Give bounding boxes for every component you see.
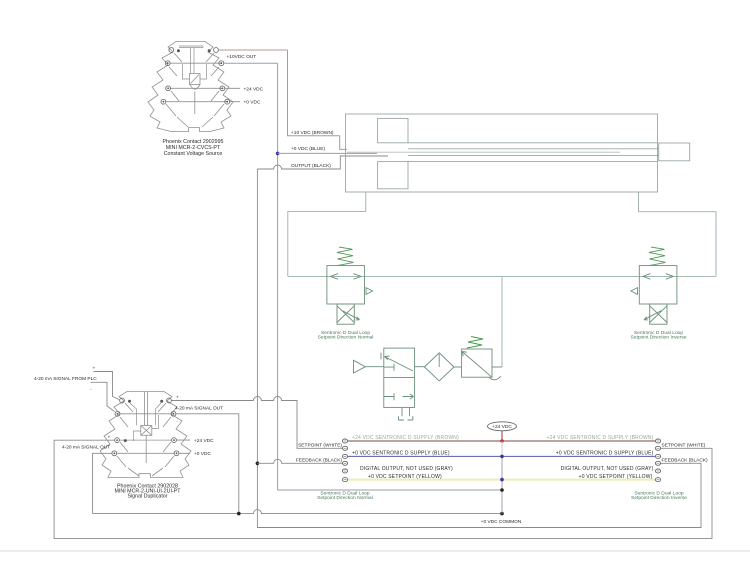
valve V1 throttle arrow	[342, 311, 360, 320]
U2 body outline	[100, 392, 191, 478]
directional valve body	[384, 348, 415, 407]
node blue junction supply	[500, 455, 504, 459]
line filter to regulator	[454, 366, 462, 368]
cylinder rod	[408, 149, 659, 156]
valve V2 throttle arrow	[644, 311, 662, 320]
pneumatic line right cylinder port to valve V2	[639, 192, 717, 276]
wire yellow setpoint zero	[348, 479, 656, 481]
wire brown supply	[348, 440, 656, 442]
svg-text:Setpoint Direction Normal: Setpoint Direction Normal	[318, 335, 374, 341]
wire OUT1+ to left valve setpoint	[171, 397, 342, 449]
svg-text:Setpoint Direction Inverse: Setpoint Direction Inverse	[631, 495, 687, 501]
wire OUT2- to common	[93, 453, 112, 513]
valve V1 throttle X	[337, 306, 354, 323]
U1 isolator box	[190, 74, 201, 85]
svg-text:+0 VDC: +0 VDC	[244, 100, 261, 106]
svg-text:+24 VDC SENTRONIC D SUPPLY (BR: +24 VDC SENTRONIC D SUPPLY (BROWN)	[352, 435, 459, 441]
svg-text:+0 VDC COMMON: +0 VDC COMMON	[481, 519, 522, 525]
regulator spring	[467, 337, 483, 349]
svg-text:4-20 mA SIGNAL FROM PLC: 4-20 mA SIGNAL FROM PLC	[34, 376, 97, 382]
wire blue main vertical	[278, 489, 502, 491]
svg-text:DIGITAL OUTPUT, NOT USED (GRAY: DIGITAL OUTPUT, NOT USED (GRAY)	[561, 466, 654, 472]
valve V2 spring	[649, 247, 666, 265]
regulator arrow	[462, 352, 492, 377]
directional valve bottom arrow	[403, 394, 414, 399]
terminal circles left valve cable	[342, 439, 347, 482]
directional valve top arrow	[381, 353, 413, 372]
cylinder transducer probe	[347, 151, 620, 153]
svg-text:+: +	[176, 396, 179, 401]
U2 wing diagonals	[117, 403, 174, 476]
directional valve exhaust stubs	[399, 407, 413, 420]
directional valve bottom T port	[384, 393, 394, 400]
terminal circles right valve cable	[655, 439, 660, 482]
module U1 Phoenix Contact constant voltage source	[148, 42, 233, 132]
U1 internal routing	[183, 64, 207, 79]
svg-text:SETPOINT (WHITE): SETPOINT (WHITE)	[662, 443, 706, 449]
cylinder rod end cap	[659, 143, 690, 161]
U1 wing diagonals	[166, 53, 224, 127]
regulator output line	[492, 366, 502, 368]
svg-text:SETPOINT (WHITE): SETPOINT (WHITE)	[298, 443, 342, 449]
svg-text:FEEDBACK (BLACK): FEEDBACK (BLACK)	[662, 458, 709, 464]
wire zero volt tie vertical	[501, 456, 503, 513]
svg-text:Setpoint Direction Inverse: Setpoint Direction Inverse	[631, 335, 687, 341]
node blue junction	[276, 152, 280, 156]
U1 internal T feed	[179, 46, 204, 74]
valve V2 throttle X	[650, 306, 667, 323]
U2 center line below box	[145, 435, 147, 463]
pneumatic supply riser	[501, 276, 503, 367]
valve V1 throttle box	[337, 304, 354, 324]
wire +0VDC blue into cylinder	[278, 152, 377, 154]
wire +24 feed	[501, 431, 503, 441]
pneumatic line left cylinder port to valve V1	[288, 192, 366, 276]
node zero common junction	[500, 488, 504, 492]
wire faint link	[501, 441, 503, 456]
line valve to filter	[415, 366, 425, 368]
cylinder body	[346, 114, 658, 192]
valve V2 throttle box	[650, 304, 667, 324]
svg-text:+24 VDC: +24 VDC	[492, 424, 512, 430]
svg-text:FEEDBACK (BLACK): FEEDBACK (BLACK)	[296, 458, 343, 464]
valve V1 spring	[337, 247, 354, 265]
wire common	[93, 510, 502, 514]
svg-text:+0 VDC SENTRONIC D SUPPLY (BLU: +0 VDC SENTRONIC D SUPPLY (BLUE)	[352, 451, 450, 457]
svg-text:Setpoint Direction Normal: Setpoint Direction Normal	[317, 495, 373, 501]
supply line to valve	[365, 366, 383, 368]
cylinder piston upper block	[378, 118, 408, 142]
svg-text:4-20 mA SIGNAL OUT: 4-20 mA SIGNAL OUT	[175, 406, 223, 412]
wire OUT2+ big loop to right valve setpoint	[54, 440, 712, 538]
svg-text:+24 VDC: +24 VDC	[194, 438, 214, 444]
regulator relief curve	[489, 376, 501, 380]
svg-text:DIGITAL OUTPUT, NOT USED (GRAY: DIGITAL OUTPUT, NOT USED (GRAY)	[360, 466, 453, 472]
wire blue supply	[348, 455, 656, 457]
svg-text:+0 VDC SENTRONIC D SUPPLY (BLU: +0 VDC SENTRONIC D SUPPLY (BLUE)	[556, 451, 654, 457]
cylinder bore lines	[408, 143, 658, 162]
valve V1 body	[327, 266, 365, 304]
filter diamond	[424, 353, 454, 381]
svg-text:+10 VDC (BROWN): +10 VDC (BROWN)	[291, 130, 334, 136]
node common junction 2	[500, 512, 504, 516]
svg-text:+: +	[93, 367, 96, 372]
svg-text:+10VDC OUT: +10VDC OUT	[227, 54, 257, 60]
wire feedback vertical	[257, 169, 701, 528]
svg-text:+24 VDC SENTRONIC D SUPPLY (BR: +24 VDC SENTRONIC D SUPPLY (BROWN)	[547, 435, 654, 441]
cylinder piston lower block	[378, 162, 408, 189]
svg-text:+24 VDC: +24 VDC	[244, 86, 264, 92]
svg-text:OUTPUT (BLACK): OUTPUT (BLACK)	[291, 163, 331, 169]
module U2 Phoenix Contact signal duplicator	[100, 392, 191, 478]
node yellow junction	[500, 478, 504, 482]
wire PLC plus	[94, 372, 120, 400]
wire PLC minus	[91, 382, 115, 411]
valve V1 pilot triangle	[366, 288, 373, 295]
valve V1 arrows	[331, 274, 361, 280]
U1 terminal row lines	[166, 63, 227, 101]
directional valve midline	[384, 376, 415, 378]
U2 isolator box	[141, 426, 152, 436]
node +24 VDC	[488, 422, 517, 431]
U2 internal routing	[130, 403, 161, 441]
U1 funnel	[190, 85, 200, 115]
valve V2 arrows	[643, 274, 673, 280]
U2 wire stubs	[176, 440, 190, 453]
svg-text:+0 VDC: +0 VDC	[194, 451, 211, 457]
svg-text:Constant Voltage Source: Constant Voltage Source	[164, 151, 223, 157]
U2 terminal row lines	[117, 414, 175, 454]
air supply triangle	[354, 360, 366, 373]
node common junction 1	[237, 512, 241, 516]
svg-text:+0 VDC SETPOINT (YELLOW): +0 VDC SETPOINT (YELLOW)	[368, 474, 442, 480]
wire +10VDC brown from U1 to transducer	[218, 49, 287, 51]
svg-text:4-20 mA SIGNAL OUT: 4-20 mA SIGNAL OUT	[62, 444, 110, 450]
regulator body	[462, 349, 492, 377]
U1 terminals	[161, 48, 230, 105]
valve V2 body	[639, 266, 677, 304]
pneumatic main line	[288, 275, 716, 277]
node brown junction	[500, 439, 504, 443]
valve V2 pilot triangle	[631, 288, 638, 295]
svg-text:+0 VDC (BLUE): +0 VDC (BLUE)	[291, 146, 325, 152]
U2 internal feed lines	[145, 392, 148, 426]
svg-text:+0 VDC SETPOINT (YELLOW): +0 VDC SETPOINT (YELLOW)	[579, 474, 653, 480]
U2 terminals	[112, 398, 179, 456]
node feedback junction	[256, 462, 260, 466]
svg-text:Signal Duplicator: Signal Duplicator	[127, 494, 167, 500]
wire OUTPUT black from transducer	[257, 156, 388, 169]
U1 wire stubs to labels	[225, 88, 240, 101]
wire +0VDC blue from U1	[224, 62, 278, 64]
directional valve top T port	[384, 364, 394, 371]
wire OUT1- to common	[176, 414, 239, 514]
wire feedback branch left	[257, 459, 342, 463]
U1 body outline	[148, 42, 233, 132]
sheet border bottom	[0, 550, 750, 552]
